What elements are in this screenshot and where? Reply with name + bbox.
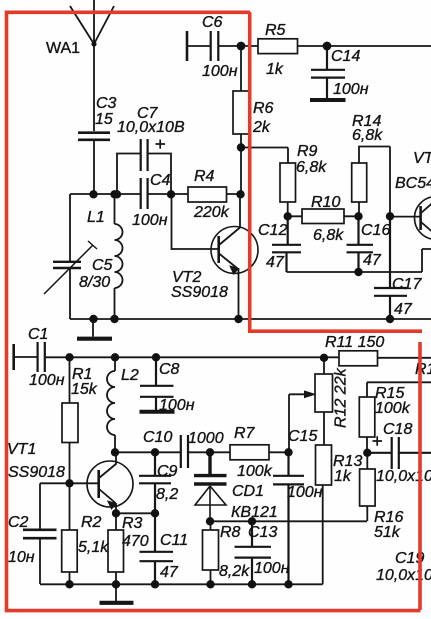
capacitor C3 [78, 133, 110, 140]
junction L1 bottom [110, 315, 118, 323]
svg-text:47: 47 [266, 254, 285, 271]
svg-text:10,0х10В: 10,0х10В [376, 468, 431, 485]
resistor R11 [339, 351, 378, 366]
wire VT1 emitter node [116, 513, 155, 530]
capacitor C16 [347, 216, 374, 272]
junction VT1 base bias [65, 479, 73, 487]
svg-text:R7: R7 [234, 425, 256, 442]
svg-text:47: 47 [394, 301, 413, 318]
wire R1 leads [69, 357, 71, 483]
wire R6 column [240, 46, 242, 194]
svg-text:100н: 100н [159, 397, 195, 414]
resistor R7 [230, 445, 269, 460]
svg-text:SS9018: SS9018 [8, 464, 65, 481]
svg-text:1k: 1k [334, 468, 352, 485]
red border top [5, 11, 250, 15]
junction C6-R5-R6 [237, 42, 246, 51]
red divider horizontal middle [248, 329, 422, 333]
wire C2 top lead [39, 483, 41, 529]
svg-text:470: 470 [122, 533, 149, 550]
capacitor C1 [38, 342, 45, 372]
svg-text:100н: 100н [287, 484, 323, 501]
junction C11 bottom bus [151, 580, 159, 588]
transistor VT2 [211, 227, 258, 274]
wire R6 to R9 [241, 148, 288, 164]
svg-text:100н: 100н [29, 372, 65, 389]
svg-text:R12 22k: R12 22k [333, 367, 350, 428]
junction R1 top [65, 353, 73, 361]
svg-text:15k: 15k [71, 381, 98, 398]
resistor R14 [352, 163, 367, 202]
wire base rail VT1 [40, 482, 98, 484]
wire R9 to node [287, 202, 289, 216]
wire main bus y194 [70, 193, 240, 195]
capacitor C10 [181, 435, 188, 468]
junction R6 bottom [237, 143, 245, 151]
svg-text:2k: 2k [252, 119, 271, 136]
junction C7 right [167, 190, 175, 198]
svg-text:100н: 100н [202, 63, 238, 80]
svg-text:1k: 1k [266, 61, 284, 78]
junction R4 right collector [236, 190, 244, 198]
resistor R4 [188, 187, 227, 202]
svg-text:8,2k: 8,2k [219, 563, 250, 580]
capacitor C11 [140, 513, 174, 584]
inductor L1 [115, 194, 123, 319]
junction CD1 top [206, 448, 214, 456]
svg-text:C15: C15 [288, 428, 317, 445]
wire R12 wiper to node [288, 394, 290, 452]
capacitor C4 [141, 178, 148, 209]
varicap CD1 cathode plates [194, 452, 227, 484]
junction C17 bottom bus [386, 315, 394, 323]
ground bottom [115, 584, 117, 602]
svg-text:C13: C13 [248, 524, 277, 541]
plus sign C18 [373, 436, 383, 445]
junction VT1 emitter [112, 509, 120, 517]
capacitor C12 [272, 216, 301, 272]
junction R9-R10-C12 [284, 212, 292, 220]
wire rail y452 [115, 451, 289, 453]
svg-text:47: 47 [160, 564, 179, 581]
transistor VT3 [415, 197, 431, 240]
wire R14 top to VT3 base node [359, 147, 390, 217]
resistor R1 [62, 403, 78, 443]
wire R12 to R13 [323, 412, 325, 445]
junction L2 bottom [111, 448, 119, 456]
transistor VT1 [87, 461, 133, 507]
svg-text:R10: R10 [311, 194, 340, 211]
svg-text:BC546: BC546 [395, 175, 431, 192]
junction CD1 bottom [206, 517, 214, 525]
capacitor C6 [211, 31, 219, 61]
capacitor C2 [23, 530, 57, 538]
red border left [5, 11, 9, 613]
wire rail y521 varicap to R16 [210, 520, 367, 522]
resistor R9 [280, 163, 296, 202]
red border right vertical [418, 342, 422, 610]
wire R3 bottom [115, 572, 117, 584]
junction R7-C15-wiper [284, 448, 292, 456]
svg-text:R17: R17 [415, 361, 431, 378]
svg-text:C14: C14 [331, 48, 360, 65]
wire R15 bottom [366, 437, 368, 453]
junction L2 top [111, 353, 119, 361]
potentiometer R12 [315, 374, 333, 412]
svg-text:C2: C2 [8, 514, 29, 531]
wiper arrow R12 [289, 393, 306, 395]
capacitor C15 [273, 452, 304, 584]
svg-text:SS9018: SS9018 [171, 284, 228, 301]
ground C8 [140, 410, 175, 414]
svg-text:6,8k: 6,8k [352, 127, 383, 144]
wire bus to VT2 base [172, 194, 219, 249]
svg-text:C6: C6 [202, 14, 223, 31]
svg-text:VT3: VT3 [413, 150, 431, 167]
svg-text:C5: C5 [92, 257, 113, 274]
junction C13 top [248, 517, 256, 525]
ground C14 [310, 98, 346, 102]
svg-text:10,0х10В: 10,0х10В [117, 119, 185, 136]
junction C16 bottom rail [354, 268, 362, 276]
svg-text:1000: 1000 [188, 430, 224, 447]
capacitor C9 [139, 452, 171, 513]
svg-text:C11: C11 [160, 532, 188, 549]
wire rail y272 C12 C16 emitter [287, 249, 431, 272]
junction R3 bottom bus [112, 580, 120, 588]
wire C5 branch left [69, 194, 71, 319]
svg-text:10,0х10В: 10,0х10В [376, 567, 431, 584]
wire bottom bus y584 [40, 485, 323, 584]
wire rail y357 [45, 356, 431, 359]
antenna WA1 [70, 0, 114, 131]
svg-text:WA1: WA1 [46, 40, 80, 57]
svg-text:51k: 51k [374, 524, 401, 541]
junction VT3 base [386, 212, 394, 220]
capacitor C7 [141, 139, 148, 171]
svg-text:R9: R9 [297, 143, 318, 160]
svg-text:R3: R3 [122, 515, 143, 532]
svg-text:100н: 100н [254, 560, 290, 577]
svg-text:100н: 100н [333, 81, 369, 98]
svg-text:R5: R5 [265, 22, 286, 39]
svg-text:8,2: 8,2 [156, 486, 178, 503]
resistor R3 [108, 530, 124, 572]
junction R8 bottom bus [206, 580, 214, 588]
svg-text:10н: 10н [8, 549, 35, 566]
junction R15-R16-C18 [363, 449, 371, 457]
svg-text:6,8k: 6,8k [313, 227, 344, 244]
capacitor C5 trimmer [53, 262, 81, 268]
svg-text:КВ121: КВ121 [231, 504, 278, 521]
junction C9 top [151, 448, 159, 456]
svg-text:VT1: VT1 [7, 441, 36, 458]
resistor R2 [62, 530, 77, 572]
svg-text:R2: R2 [81, 514, 102, 531]
svg-text:C17: C17 [392, 276, 422, 293]
junction C14 top [323, 42, 332, 51]
svg-text:5,1k: 5,1k [78, 539, 109, 556]
wire C2 bottom lead [39, 539, 41, 584]
resistor R10 [302, 209, 344, 224]
wire R14 bottom [358, 202, 360, 216]
junction L1 top [110, 190, 118, 198]
svg-text:15: 15 [95, 111, 113, 128]
red border bottom [5, 609, 421, 613]
junction C13 bottom bus [248, 580, 256, 588]
capacitor C17 [374, 216, 407, 319]
svg-text:R11 150: R11 150 [325, 334, 384, 351]
wire R16 leads [366, 453, 368, 522]
svg-text:R4: R4 [194, 168, 215, 185]
svg-text:100k: 100k [375, 400, 411, 417]
svg-text:R6: R6 [253, 100, 274, 117]
svg-text:C1: C1 [28, 326, 48, 343]
junction R10-R14-C16 [354, 212, 362, 220]
svg-text:100н: 100н [132, 212, 168, 229]
junction C8 top [152, 353, 160, 361]
svg-text:L2: L2 [121, 367, 139, 384]
wire R2 leads [69, 483, 71, 584]
svg-text:47: 47 [363, 252, 382, 269]
svg-text:C4: C4 [150, 172, 171, 189]
svg-text:C10: C10 [143, 429, 172, 446]
resistor R6 [233, 91, 249, 134]
junction C3-L1 bus [89, 190, 97, 198]
svg-text:100k: 100k [237, 463, 273, 480]
svg-text:C9: C9 [157, 463, 178, 480]
capacitor C18 [367, 437, 431, 469]
plus sign C7 [156, 140, 166, 149]
node antenna apex [91, 41, 96, 46]
wire C7 branch [117, 154, 171, 195]
wire VT3 base [390, 216, 420, 218]
wire R10 leads [288, 215, 359, 217]
resistor R15 [359, 397, 375, 437]
terminal C6 input [186, 31, 189, 61]
svg-text:CD1: CD1 [232, 483, 264, 500]
resistor R5 [258, 39, 298, 54]
resistor R13 [316, 445, 332, 485]
terminal C1 input [12, 344, 15, 370]
wire R15 top [367, 382, 431, 397]
svg-text:6,8k: 6,8k [296, 159, 327, 176]
wire C1 left lead [14, 356, 37, 358]
wire top bus y46 [187, 45, 431, 47]
svg-text:L1: L1 [87, 209, 105, 226]
resistor R8 [203, 530, 219, 570]
junction C15 bottom bus [284, 580, 292, 588]
junction C7 left [113, 190, 121, 198]
capacitor C8 [140, 357, 174, 410]
svg-text:C3: C3 [96, 95, 117, 112]
ground top section [77, 319, 112, 339]
svg-text:C12: C12 [258, 222, 287, 239]
capacitor C14 [311, 46, 345, 98]
wire R12 top [323, 358, 325, 374]
svg-text:8/30: 8/30 [79, 274, 110, 291]
wire R8 leads [210, 521, 212, 584]
resistor R16 [360, 469, 376, 506]
junction R12 top [320, 354, 328, 362]
junction ground stub top [89, 315, 97, 323]
varicap CD1 anode triangle [195, 486, 226, 521]
trimmer arrow C5 [44, 241, 97, 294]
wire C3 to bus [93, 141, 95, 194]
svg-text:C16: C16 [361, 222, 390, 239]
svg-text:C8: C8 [159, 361, 180, 378]
svg-text:C18: C18 [383, 421, 412, 438]
svg-text:R8: R8 [220, 524, 241, 541]
inductor L2 [107, 357, 115, 452]
svg-text:220k: 220k [193, 204, 230, 221]
wire bus y319 [70, 318, 431, 320]
junction C9 bottom [151, 509, 159, 517]
red divider vertical middle [248, 12, 252, 331]
junction VT2 emitter bus [234, 315, 242, 323]
capacitor C13 [235, 521, 272, 584]
junction R2 bottom bus [65, 580, 73, 588]
